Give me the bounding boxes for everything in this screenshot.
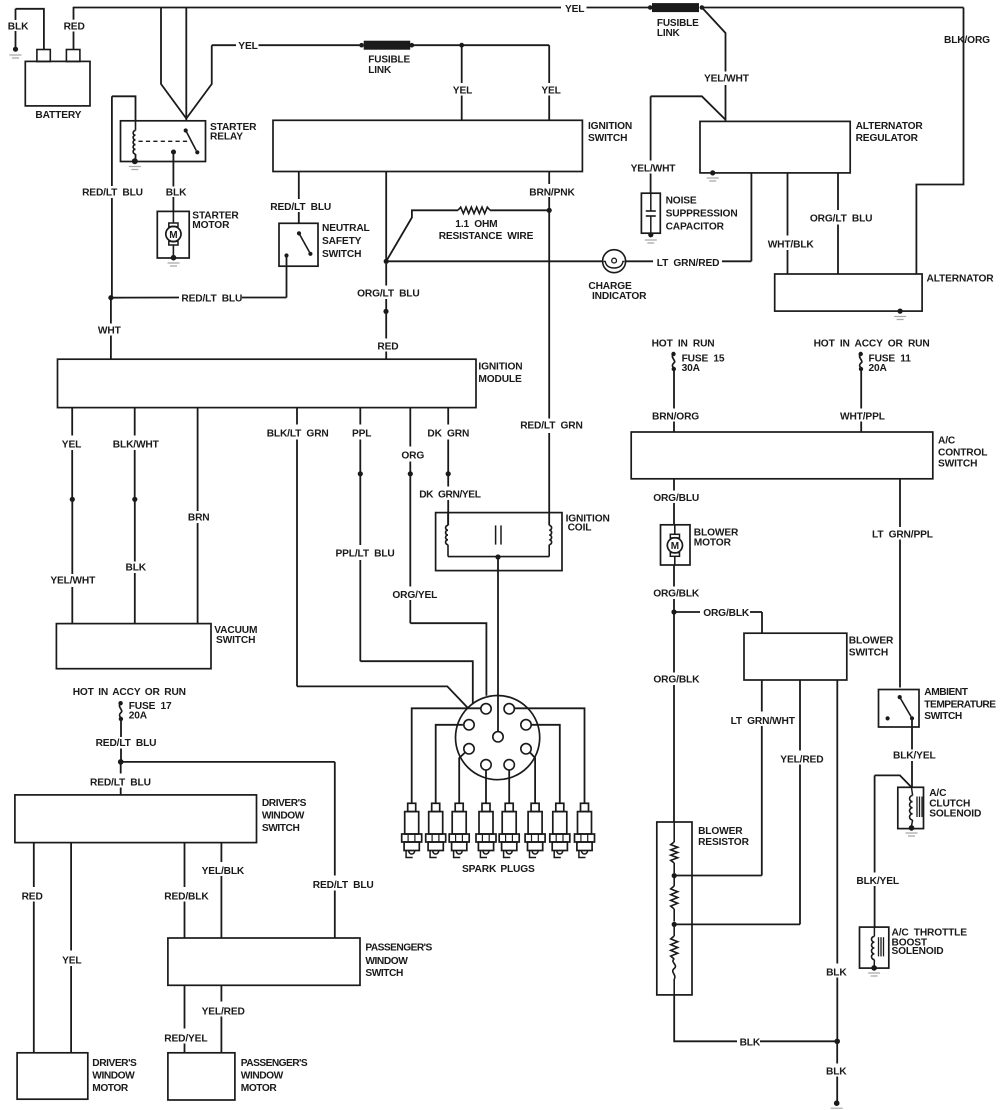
distributor cap terminal 2 <box>504 704 514 714</box>
wire relay feed left diagonal <box>161 8 186 119</box>
node resistor tap 2 <box>672 922 677 927</box>
plug wire 6 <box>530 752 535 803</box>
wire coil to distributor <box>497 557 499 732</box>
label BLOWER RESISTOR <box>698 826 749 848</box>
coil bottom bus <box>448 556 549 558</box>
wire YEL bus 2 <box>412 44 462 46</box>
svg-text:BLK: BLK <box>826 968 847 979</box>
label RED window <box>22 892 43 903</box>
svg-text:ORG/LT BLU: ORG/LT BLU <box>810 214 873 225</box>
label RED <box>64 22 85 33</box>
svg-text:NEUTRAL: NEUTRAL <box>322 223 370 234</box>
wire YEL drop 2 <box>462 45 550 120</box>
wire ORG <box>409 408 411 472</box>
power tag HOT IN RUN <box>652 339 715 350</box>
svg-text:WINDOW: WINDOW <box>92 1071 135 1082</box>
distributor cap terminal 1 <box>481 704 491 714</box>
svg-text:SWITCH: SWITCH <box>588 133 627 144</box>
svg-text:20A: 20A <box>129 711 148 722</box>
svg-text:BLK/WHT: BLK/WHT <box>113 439 160 450</box>
wire YEL/WHT left branch <box>651 96 726 193</box>
label DRIVER'S WINDOW SWITCH <box>262 798 307 834</box>
plug wire 8 <box>514 708 584 803</box>
wire RED/LT BLU passenger <box>121 762 335 938</box>
svg-text:BLK/LT GRN: BLK/LT GRN <box>267 428 329 439</box>
svg-text:YEL: YEL <box>62 439 81 450</box>
svg-text:BLK: BLK <box>166 188 187 199</box>
ignition switch S1 <box>273 120 582 171</box>
battery B1 <box>25 50 90 106</box>
svg-text:WHT: WHT <box>98 326 122 337</box>
svg-text:RESISTOR: RESISTOR <box>698 837 749 848</box>
svg-text:COIL: COIL <box>568 523 592 534</box>
svg-text:RED/LT BLU: RED/LT BLU <box>96 738 157 749</box>
relay coil <box>133 121 135 159</box>
resistor element <box>671 822 678 873</box>
label STARTER RELAY <box>210 122 257 143</box>
label SPARK PLUGS <box>462 864 535 875</box>
label YEL/RED <box>780 755 823 766</box>
label RED/LT BLU bus <box>181 293 242 304</box>
wire DK GRN <box>447 408 449 472</box>
node PPL splice <box>358 471 363 476</box>
relay dashed armature link <box>139 140 188 142</box>
label ORG/LT BLU regulator <box>810 214 873 225</box>
label BRN/PNK <box>529 187 575 198</box>
wire PPL/LT BLU <box>360 474 473 704</box>
wire ORG/YEL <box>410 474 486 696</box>
svg-text:WINDOW: WINDOW <box>241 1071 284 1082</box>
fuse F17 <box>118 701 123 721</box>
svg-text:SUPPRESSION: SUPPRESSION <box>666 209 738 220</box>
wire YEL module <box>71 408 73 497</box>
wire BLK/ORG <box>916 8 963 275</box>
node BLK junction <box>834 1039 840 1045</box>
label LT GRN/WHT <box>731 716 796 727</box>
label BLK/LT GRN <box>267 428 329 439</box>
wire ORG/BLK 3 <box>673 612 675 822</box>
svg-text:RED/LT BLU: RED/LT BLU <box>270 202 331 213</box>
svg-text:HOT IN ACCY OR RUN: HOT IN ACCY OR RUN <box>814 339 930 350</box>
plug wire 3 <box>459 752 465 803</box>
label RED/LT BLU fuse <box>96 738 157 749</box>
label BLK tail <box>826 1067 847 1078</box>
svg-text:30A: 30A <box>682 363 701 374</box>
label BLK starter <box>166 188 187 199</box>
wire relay feed right diagonal <box>186 45 211 118</box>
distributor housing <box>456 696 540 780</box>
label WHT/PPL <box>840 412 885 423</box>
label STARTER MOTOR <box>192 210 239 231</box>
svg-text:RED/LT GRN: RED/LT GRN <box>520 421 583 432</box>
wire YEL/RED window <box>220 985 222 1053</box>
label ORG/YEL <box>392 590 437 601</box>
node DK GRN splice <box>446 471 451 476</box>
plug wire 4 <box>485 770 487 803</box>
label BLK vacuum <box>126 563 147 574</box>
label BRN/ORG <box>652 412 699 423</box>
svg-text:LINK: LINK <box>657 28 681 39</box>
label BLOWER MOTOR <box>694 528 739 549</box>
wire RED to module <box>385 314 387 359</box>
plug wire 7 <box>531 725 560 804</box>
ground BLK end <box>831 1100 843 1110</box>
distributor center terminal <box>493 732 503 742</box>
svg-text:DK GRN: DK GRN <box>427 428 469 439</box>
relay switch contact <box>184 128 200 154</box>
svg-text:MOTOR: MOTOR <box>92 1083 129 1094</box>
label BLK/YEL 2 <box>856 876 899 887</box>
distributor cap terminal 6 <box>521 744 531 754</box>
ambient switch contacts <box>886 695 915 721</box>
node YEL splice <box>70 497 75 502</box>
wire BLK/WHT <box>134 408 136 497</box>
starter relay K1 <box>121 121 206 162</box>
svg-text:YEL/WHT: YEL/WHT <box>631 163 677 174</box>
wire BRN <box>197 408 199 624</box>
node YEL junction <box>459 43 464 48</box>
svg-text:ORG/BLK: ORG/BLK <box>653 589 700 600</box>
clutch solenoid ground dot <box>906 825 918 836</box>
spark plug 4 <box>476 803 496 857</box>
svg-text:BLK/ORG: BLK/ORG <box>944 35 990 46</box>
wire top feed right <box>702 7 964 9</box>
svg-text:SWITCH: SWITCH <box>938 459 977 470</box>
label AMBIENT TEMPERATURE SWITCH <box>924 687 996 722</box>
svg-text:ORG/BLK: ORG/BLK <box>703 608 750 619</box>
ignition coil T1 <box>436 513 562 571</box>
wire LT GRN/PPL <box>899 479 901 688</box>
svg-text:IGNITION: IGNITION <box>588 121 632 132</box>
battery negative wire BLK <box>16 9 44 50</box>
label FUSIBLE LINK F1 <box>657 18 699 39</box>
svg-text:SPARK PLUGS: SPARK PLUGS <box>462 864 535 875</box>
label BLK/WHT <box>113 439 160 450</box>
label YEL/RED window <box>202 1006 245 1017</box>
wire RED window <box>33 843 35 1053</box>
wire BLK blower <box>836 680 838 1039</box>
svg-text:IGNITION: IGNITION <box>478 362 522 373</box>
label IGNITION COIL <box>566 513 610 533</box>
label FUSE 11 20A <box>869 354 912 375</box>
resistor element 3 <box>671 927 678 995</box>
ac control switch S4 <box>631 432 933 479</box>
svg-text:INDICATOR: INDICATOR <box>592 291 647 302</box>
svg-text:LT GRN/WHT: LT GRN/WHT <box>731 716 796 727</box>
svg-text:RESISTANCE WIRE: RESISTANCE WIRE <box>439 231 534 242</box>
wire YEL/RED <box>677 680 801 924</box>
label YEL drop1 <box>453 86 472 97</box>
boost solenoid ground dot <box>868 965 880 976</box>
wire RED/LT GRN to coil <box>548 210 550 525</box>
wire RED/LT BLU to NSS <box>298 172 300 224</box>
svg-text:RED/YEL: RED/YEL <box>164 1033 207 1044</box>
svg-text:BLOWER: BLOWER <box>849 636 894 647</box>
svg-text:LINK: LINK <box>368 65 392 76</box>
distributor cap terminal 3 <box>464 720 474 730</box>
svg-text:RED: RED <box>377 341 398 352</box>
wire BRN/ORG <box>673 369 675 432</box>
label RED/LT BLU nss <box>270 202 331 213</box>
node ORG/LT BLU splice <box>383 309 388 314</box>
svg-text:WHT/PPL: WHT/PPL <box>840 412 885 423</box>
blower switch S5 <box>744 633 847 680</box>
svg-text:BLK/YEL: BLK/YEL <box>893 751 936 762</box>
wire BRN/PNK <box>548 172 550 209</box>
label FUSIBLE LINK F2 <box>368 54 410 76</box>
starter motor M1 <box>157 211 189 258</box>
wire RED/BLK <box>184 843 186 938</box>
svg-text:SOLENOID: SOLENOID <box>929 809 981 820</box>
wire LT GRN/RED left <box>386 260 602 262</box>
svg-text:YEL/BLK: YEL/BLK <box>202 866 245 877</box>
svg-text:LT GRN/PPL: LT GRN/PPL <box>872 530 933 541</box>
label WHT <box>98 326 122 337</box>
label YEL window <box>62 956 81 967</box>
coil primary winding <box>446 513 448 557</box>
wire RED/LT BLU fuse <box>120 719 122 760</box>
resistor element 2 <box>671 878 678 922</box>
label NEUTRAL SAFETY SWITCH <box>322 223 370 260</box>
distributor cap terminal 8 <box>504 760 514 770</box>
svg-text:RELAY: RELAY <box>210 132 243 143</box>
passengers window motor M4 <box>168 1053 235 1100</box>
svg-text:ORG/YEL: ORG/YEL <box>392 590 437 601</box>
label YEL/WHT vacuum <box>50 576 96 587</box>
spark plug 5 <box>499 803 519 857</box>
label ORG/BLK 2 <box>703 608 750 619</box>
svg-text:TEMPERATURE: TEMPERATURE <box>924 699 996 710</box>
spark plug 7 <box>550 803 570 857</box>
label BRN <box>188 513 210 524</box>
spark plug 2 <box>426 803 446 857</box>
svg-text:FUSIBLE: FUSIBLE <box>368 54 410 65</box>
svg-text:PASSENGER'S: PASSENGER'S <box>241 1058 308 1069</box>
label ORG/BLU <box>653 493 699 504</box>
label DK GRN/YEL <box>419 490 481 501</box>
svg-text:YEL: YEL <box>62 956 81 967</box>
svg-text:MOTOR: MOTOR <box>192 220 230 231</box>
label RED/YEL <box>164 1033 207 1044</box>
capacitor ground dot <box>645 232 657 243</box>
svg-text:WINDOW: WINDOW <box>262 811 305 822</box>
spark plug 8 <box>575 803 595 857</box>
svg-text:DRIVER'S: DRIVER'S <box>92 1058 137 1069</box>
svg-text:1.1 OHM: 1.1 OHM <box>455 219 497 230</box>
label LT GRN/RED <box>657 258 720 269</box>
svg-text:RED/BLK: RED/BLK <box>164 892 209 903</box>
plug wire 5 <box>508 770 510 803</box>
svg-text:ALTERNATOR: ALTERNATOR <box>927 274 995 285</box>
svg-text:BRN/ORG: BRN/ORG <box>652 412 699 423</box>
vacuum switch S3 <box>56 624 211 669</box>
alternator regulator U1 <box>700 121 850 172</box>
svg-text:DK GRN/YEL: DK GRN/YEL <box>419 490 481 501</box>
label BLK <box>8 22 29 33</box>
wire LT GRN/RED right <box>626 173 752 261</box>
label VACUUM SWITCH <box>214 625 257 646</box>
svg-text:SWITCH: SWITCH <box>365 968 403 979</box>
wire BLK/LT GRN <box>297 408 468 708</box>
svg-text:A/C: A/C <box>929 788 947 799</box>
svg-text:NOISE: NOISE <box>666 196 697 207</box>
label BLK bus <box>740 1038 761 1049</box>
wire ORG/LT BLU regulator <box>837 173 839 274</box>
fusible link F2 <box>359 41 414 49</box>
power tag HOT IN ACCY OR RUN windows <box>73 687 186 698</box>
label YEL module <box>62 439 81 450</box>
svg-text:RED/LT BLU: RED/LT BLU <box>82 188 143 199</box>
svg-text:YEL: YEL <box>565 4 584 15</box>
wire YEL/WHT vacuum <box>71 499 73 623</box>
wire YEL window <box>70 843 72 1053</box>
distributor cap terminal 5 <box>464 744 474 754</box>
wire ORG/BLU <box>673 479 675 525</box>
label RED/LT BLU passenger <box>313 880 374 891</box>
wire BLK tail <box>836 1041 838 1101</box>
wire YEL drop 1 <box>461 45 463 120</box>
label A/C THROTTLE BOOST SOLENOID <box>892 928 968 958</box>
wire WHT/BLK <box>787 173 789 274</box>
label DRIVER'S WINDOW MOTOR <box>92 1058 137 1094</box>
svg-text:ORG: ORG <box>401 450 424 461</box>
label FUSE 17 20A <box>129 701 172 722</box>
svg-text:MOTOR: MOTOR <box>241 1083 278 1094</box>
ambient temperature switch S6 <box>879 690 920 728</box>
label IGNITION SWITCH <box>588 121 632 144</box>
wire top feed <box>74 7 649 9</box>
svg-text:CAPACITOR: CAPACITOR <box>666 222 725 233</box>
wire YEL/WHT drop <box>702 8 726 122</box>
svg-text:SWITCH: SWITCH <box>924 711 962 722</box>
svg-text:MODULE: MODULE <box>478 374 522 385</box>
wire WHT to module <box>110 298 112 360</box>
label YEL/WHT left <box>631 163 677 174</box>
relay coil ground dot <box>129 158 141 169</box>
ground terminal dot <box>10 47 22 58</box>
svg-text:SWITCH: SWITCH <box>322 249 361 260</box>
plug wire 2 <box>436 725 463 804</box>
svg-text:SAFETY: SAFETY <box>322 236 362 247</box>
svg-text:RED/LT BLU: RED/LT BLU <box>181 293 242 304</box>
label BLK/YEL 1 <box>893 751 936 762</box>
label A/C CLUTCH SOLENOID <box>929 788 981 820</box>
charge indicator lamp <box>603 250 626 273</box>
spark plug 1 <box>402 803 422 857</box>
svg-text:SWITCH: SWITCH <box>262 823 300 834</box>
label ORG/BLK 3 <box>653 675 700 686</box>
svg-text:MOTOR: MOTOR <box>694 538 732 549</box>
coil core <box>496 525 501 544</box>
label ORG/LT BLU <box>357 288 420 299</box>
svg-text:WHT/BLK: WHT/BLK <box>768 239 815 250</box>
distributor cap terminal 4 <box>521 720 531 730</box>
node BRN/PNK junction <box>547 208 552 213</box>
svg-text:A/C: A/C <box>938 436 956 447</box>
svg-text:ORG/BLK: ORG/BLK <box>653 675 700 686</box>
svg-text:YEL/RED: YEL/RED <box>780 755 823 766</box>
resistance wire 1.1 ohm <box>386 207 549 261</box>
fuse F11 <box>859 352 864 371</box>
label YEL top <box>565 4 584 15</box>
svg-text:DRIVER'S: DRIVER'S <box>262 798 307 809</box>
wire ORG/LT BLU <box>385 172 387 310</box>
svg-text:YEL: YEL <box>541 86 560 97</box>
label RED/BLK <box>164 892 209 903</box>
plug wire 1 <box>412 708 481 803</box>
relay output node <box>171 150 176 155</box>
svg-text:BLK: BLK <box>740 1038 761 1049</box>
label IGNITION MODULE <box>478 362 522 386</box>
fusible link F1 <box>648 4 704 12</box>
svg-text:RED: RED <box>22 892 43 903</box>
label A/C CONTROL SWITCH <box>938 436 987 470</box>
wire RED/LT BLU left <box>111 96 113 296</box>
wire BLK/YEL 2 <box>874 775 876 927</box>
alternator G1 <box>775 274 922 311</box>
svg-text:BLK/YEL: BLK/YEL <box>856 876 899 887</box>
label BLOWER SWITCH <box>849 636 894 659</box>
svg-text:ALTERNATOR: ALTERNATOR <box>856 121 924 132</box>
svg-text:SOLENOID: SOLENOID <box>892 946 944 957</box>
noise suppression capacitor C1 <box>641 193 660 233</box>
label 1.1 OHM RESISTANCE WIRE <box>439 219 534 242</box>
wire BLK resistor out <box>674 995 834 1041</box>
label ALTERNATOR <box>927 274 995 285</box>
label RED/LT BLU left <box>82 188 143 199</box>
svg-text:ORG/BLU: ORG/BLU <box>653 493 699 504</box>
label YEL drop2 <box>541 86 560 97</box>
svg-text:M: M <box>169 230 177 241</box>
wire BLK/YEL 1 <box>911 718 913 787</box>
svg-text:BRN/PNK: BRN/PNK <box>529 187 575 198</box>
svg-text:RED: RED <box>64 22 85 33</box>
battery positive wire RED <box>73 7 75 50</box>
svg-text:YEL: YEL <box>453 86 472 97</box>
node RED/LT BLU junction <box>108 295 113 300</box>
node BLK/WHT splice <box>132 497 137 502</box>
svg-text:AMBIENT: AMBIENT <box>924 687 968 698</box>
wire RED/YEL <box>184 985 186 1053</box>
svg-text:RED/LT BLU: RED/LT BLU <box>90 778 151 789</box>
wire BLK vacuum <box>134 499 136 623</box>
svg-text:WINDOW: WINDOW <box>365 956 408 967</box>
svg-text:ORG/LT BLU: ORG/LT BLU <box>357 288 420 299</box>
svg-text:PPL/LT BLU: PPL/LT BLU <box>336 549 395 560</box>
drivers window motor M3 <box>17 1053 88 1099</box>
wire RED/LT BLU driver <box>120 762 122 795</box>
relay coil feed wire <box>112 96 136 121</box>
svg-text:BLK: BLK <box>8 22 29 33</box>
wire PPL <box>359 408 361 472</box>
svg-text:CONTROL: CONTROL <box>938 448 987 459</box>
nss contacts <box>284 231 312 257</box>
ac clutch solenoid L1 <box>898 787 924 828</box>
svg-text:BLK: BLK <box>126 563 147 574</box>
label NOISE SUPPRESSION CAPACITOR <box>666 196 738 233</box>
svg-text:BLOWER: BLOWER <box>698 826 743 837</box>
wire RED/LT BLU nss out <box>111 256 287 298</box>
label FUSE 15 30A <box>682 354 725 375</box>
distributor cap terminal 7 <box>481 760 491 770</box>
svg-text:YEL: YEL <box>238 41 257 52</box>
neutral safety switch S2 <box>279 223 318 266</box>
coil secondary winding <box>549 525 551 556</box>
svg-text:YEL/RED: YEL/RED <box>202 1006 245 1017</box>
node RED/LT BLU window junction <box>118 759 124 765</box>
svg-text:SWITCH: SWITCH <box>849 648 888 659</box>
starter motor ground dot <box>168 255 180 266</box>
